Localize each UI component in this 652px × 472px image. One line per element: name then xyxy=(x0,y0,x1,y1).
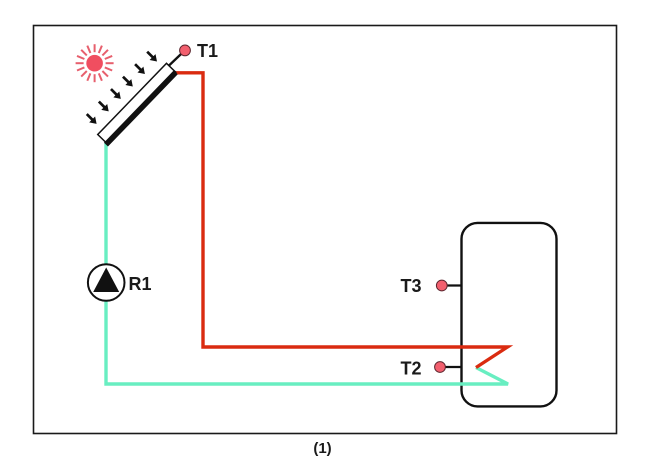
wire T2 xyxy=(440,366,462,368)
red supply pipe xyxy=(173,73,508,368)
sun arrow 2 xyxy=(96,99,112,115)
sun arrow 1 xyxy=(84,111,100,127)
green return pipe xyxy=(106,143,508,384)
tank xyxy=(462,223,557,407)
sensor T1 xyxy=(180,45,191,56)
svg-text:T1: T1 xyxy=(197,41,218,61)
svg-text:R1: R1 xyxy=(129,274,152,294)
svg-text:T2: T2 xyxy=(401,359,422,379)
sun arrow 5 xyxy=(132,61,148,77)
sensor T2 xyxy=(435,362,446,373)
sun arrow 6 xyxy=(144,49,160,65)
svg-text:(1): (1) xyxy=(313,440,331,457)
sun arrow 4 xyxy=(120,74,136,90)
pump R1 xyxy=(88,264,125,301)
svg-text:T3: T3 xyxy=(401,276,422,296)
wire T1 xyxy=(169,51,185,66)
sun xyxy=(76,44,114,82)
sensor T3 xyxy=(436,280,447,291)
sun arrow 3 xyxy=(108,86,124,102)
collector panel xyxy=(97,63,178,146)
wire T3 xyxy=(442,284,462,286)
